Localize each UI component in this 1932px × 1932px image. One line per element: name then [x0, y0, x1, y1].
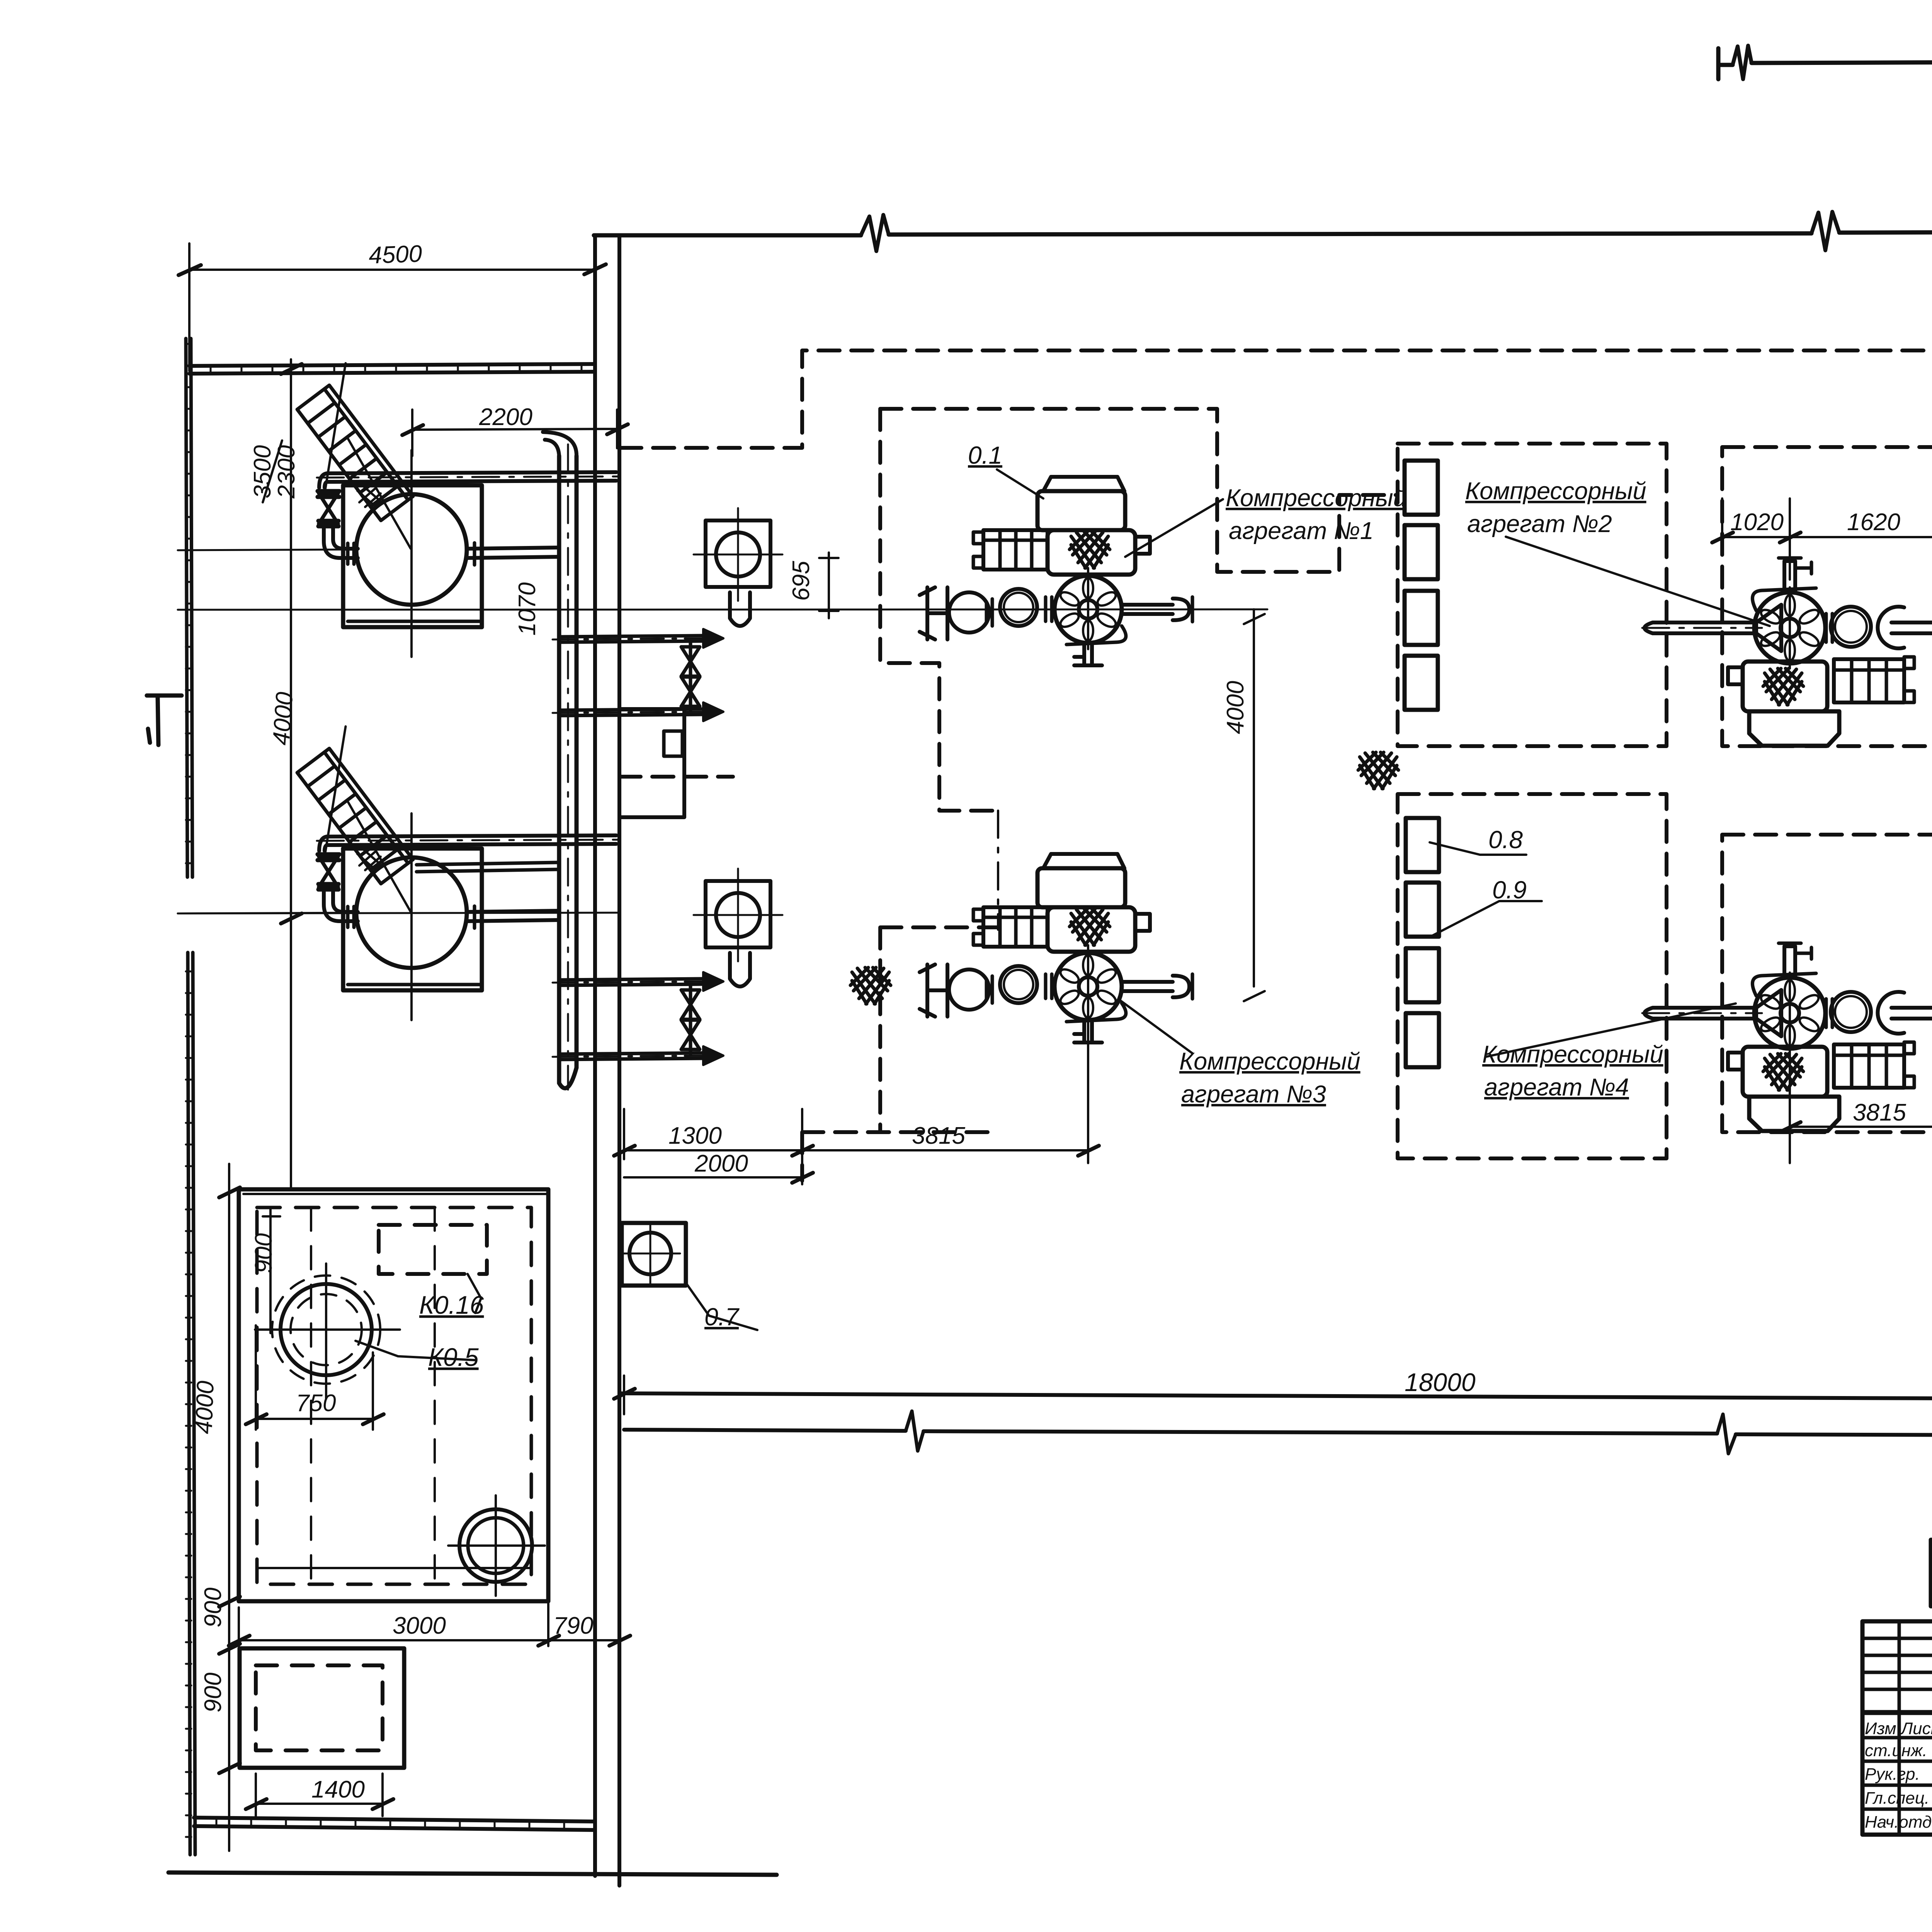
18000 verticals — [624, 1376, 1932, 1422]
discharge pipe right + bell — [1122, 605, 1173, 614]
svg-text:К0.5: К0.5 — [428, 1343, 479, 1371]
lower room — [240, 1648, 404, 1768]
small hatch in ladder — [357, 486, 381, 507]
motor roof — [1043, 477, 1124, 491]
top pipe to wall — [327, 472, 616, 482]
bottom-left masonry band — [194, 1818, 595, 1830]
svg-text:Рук.гр.: Рук.гр. — [1865, 1765, 1920, 1784]
equipment stack column lower (items 0.8 / 0.9) — [1406, 818, 1439, 1067]
svg-text:1400: 1400 — [311, 1776, 365, 1803]
pan — [1749, 711, 1839, 746]
900 ticks left — [228, 1164, 230, 1851]
trumpet — [1756, 605, 1781, 651]
unit labels — [1179, 478, 1663, 1108]
left table horizontals — [1862, 1638, 1932, 1809]
square + circle — [343, 485, 482, 627]
small rect right — [1135, 537, 1150, 554]
wire break mark 1 — [861, 215, 889, 251]
flange ticks — [1046, 597, 1052, 621]
svg-text:Компрессорный: Компрессорный — [1179, 1048, 1361, 1075]
svg-text:4500: 4500 — [368, 240, 422, 269]
leader K0.16 — [468, 1274, 481, 1313]
right pipe — [1891, 622, 1932, 633]
ladder left — [983, 530, 1048, 570]
axis line — [178, 549, 358, 550]
pump circles — [1000, 589, 1037, 626]
svg-text:Компрессорный: Компрессорный — [1465, 478, 1646, 505]
H bracket — [920, 587, 947, 639]
annex top masonry band — [189, 364, 595, 374]
4000 between rows left: vertical dim at x3245 — [1244, 609, 1265, 1001]
ladder right — [1834, 659, 1904, 702]
dim 3000 / 790 line — [239, 1604, 619, 1646]
dim 2200 left — [402, 410, 628, 456]
svg-text:3000: 3000 — [393, 1612, 446, 1639]
compressor unit N4 (copy of N2) — [1642, 943, 1932, 1131]
bottom-right dims 3815/1300 — [1790, 1028, 1932, 1163]
tick at start — [1716, 48, 1721, 79]
equipment rect on wall left lower — [619, 709, 684, 817]
wall top right section — [1718, 60, 1932, 65]
left elbow down from top pipe — [319, 473, 327, 488]
left section mark T — [147, 696, 182, 745]
svg-text:18000: 18000 — [1405, 1368, 1476, 1396]
wall top hall left segment — [594, 232, 1932, 235]
dim 750 room — [256, 1325, 373, 1430]
circle K0.5 — [281, 1284, 372, 1375]
loop pipe around flywheel right — [1066, 626, 1126, 645]
strike through 2300 — [263, 440, 282, 502]
svg-text:ст.инж.: ст.инж. — [1865, 1741, 1927, 1760]
svg-text:Изм: Изм — [1865, 1719, 1896, 1738]
break mark top-right — [1733, 46, 1752, 79]
equipment stack column upper (rect row) — [1405, 461, 1438, 710]
compressor unit N3 (copy of N1) — [920, 854, 1192, 1043]
valve on left wall pipe riser (lower pair) — [681, 990, 700, 1019]
svg-text:Гл.спец.: Гл.спец. — [1865, 1789, 1929, 1808]
svg-text:4000: 4000 — [190, 1380, 219, 1434]
crosshatch mark left of unit N3 — [850, 968, 891, 1004]
flywheel — [1054, 576, 1122, 643]
lower pair row2 — [560, 979, 703, 985]
crank box — [1048, 530, 1135, 575]
bottom hall line 2 with breaks — [624, 1430, 1932, 1436]
hatch on crank box — [1070, 532, 1110, 568]
suction unit 0.2 on left wall — [694, 508, 782, 601]
pump room — [239, 1189, 548, 1601]
dims 1020/1620 above unit2 — [1722, 498, 1932, 580]
svg-text:Нач.отд.: Нач.отд. — [1865, 1813, 1932, 1832]
diagonal strut — [348, 439, 411, 549]
upper pair row1 — [560, 636, 703, 642]
left table verticals — [1899, 1621, 1932, 1835]
U clamp — [1878, 607, 1904, 648]
flywheel — [1754, 592, 1825, 663]
svg-text:4000: 4000 — [268, 691, 298, 746]
svg-text:агрегат №4: агрегат №4 — [1484, 1074, 1629, 1101]
drain T below — [1074, 643, 1102, 665]
annex left wall band — [186, 338, 195, 1855]
motor body — [1037, 491, 1125, 530]
svg-text:1020: 1020 — [1730, 509, 1784, 536]
dim 4500 — [189, 243, 595, 371]
svg-text:0.8: 0.8 — [1488, 826, 1523, 854]
crosshatch mark center aisle — [1358, 752, 1398, 789]
0.7 unit — [622, 1223, 686, 1286]
dim 1400 — [256, 1774, 383, 1816]
motor below — [1743, 662, 1827, 711]
flange bars — [318, 491, 339, 497]
circle bottom right of room — [459, 1509, 532, 1582]
pipes continue to wall boxes rows — [417, 862, 558, 872]
condenser unit K0.2 (lower left, copy) — [178, 726, 626, 1020]
svg-text:0.1: 0.1 — [968, 441, 1002, 469]
bottom hall line 18000 — [619, 1393, 1932, 1400]
bottom-left dims 1300/3815/2000 — [624, 1001, 1088, 1184]
svg-text:1300: 1300 — [668, 1122, 722, 1149]
suction pot — [949, 592, 989, 633]
long axis lines rows 1/2 — [178, 609, 1267, 913]
svg-text:1070: 1070 — [514, 582, 541, 636]
bottom-left long ground line — [168, 1872, 777, 1875]
svg-text:0.9: 0.9 — [1492, 876, 1527, 904]
svg-text:900: 900 — [250, 1233, 277, 1273]
svg-text:750: 750 — [296, 1390, 336, 1417]
svg-text:2000: 2000 — [694, 1150, 748, 1177]
900 tick top room — [263, 1207, 280, 1333]
valve on left wall pipe riser (upper pair) — [681, 647, 700, 676]
svg-text:0.7: 0.7 — [704, 1303, 740, 1331]
flanges — [1826, 614, 1832, 642]
svg-text:2200: 2200 — [479, 404, 532, 430]
loop pipe upper — [1752, 588, 1816, 611]
svg-text:695: 695 — [788, 561, 815, 601]
svg-text:Компрессорный: Компрессорный — [1226, 485, 1407, 512]
svg-text:4000: 4000 — [1222, 681, 1249, 734]
svg-text:900: 900 — [200, 1588, 226, 1628]
leader 0.1 — [997, 469, 1043, 498]
svg-text:900: 900 — [200, 1673, 226, 1713]
dashed box K0.16 — [379, 1225, 487, 1274]
riser top — [1784, 561, 1795, 592]
svg-text:Компрессорный: Компрессорный — [1482, 1041, 1663, 1068]
vertical dim line left annex — [290, 359, 292, 1189]
svg-text:790: 790 — [553, 1612, 593, 1639]
svg-text:Лист: Лист — [1900, 1719, 1932, 1738]
axis pipe right of circle — [467, 548, 559, 558]
pump circles — [1831, 607, 1871, 647]
svg-text:агрегат №2: агрегат №2 — [1467, 510, 1612, 537]
left hall wall (double) — [595, 235, 619, 1886]
695 left (vert) — [819, 553, 838, 618]
svg-text:агрегат №3: агрегат №3 — [1181, 1081, 1326, 1108]
svg-text:1620: 1620 — [1847, 509, 1900, 536]
vertical pipe + elbow to circle — [324, 526, 358, 558]
thick vertical pipe at annex/hall boundary — [417, 432, 577, 1090]
svg-text:агрегат №1: агрегат №1 — [1229, 517, 1374, 544]
svg-text:3815: 3815 — [912, 1122, 965, 1149]
svg-text:3815: 3815 — [1853, 1099, 1906, 1126]
wire break mark 2 — [1811, 212, 1839, 250]
left pipe with cap — [1645, 622, 1756, 633]
svg-text:К0.16: К0.16 — [419, 1291, 484, 1319]
leader K0.5 — [355, 1341, 475, 1360]
dash-dot aisle centerline — [997, 811, 999, 930]
valve X — [319, 493, 338, 524]
suction unit 0.6 on left wall — [694, 869, 782, 961]
ladder — [269, 363, 434, 539]
